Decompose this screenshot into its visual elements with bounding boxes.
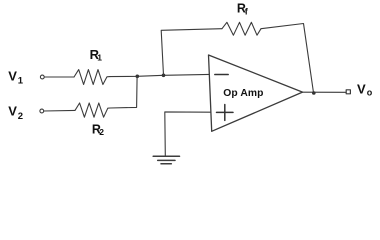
wire output xyxy=(303,91,347,93)
wire Rf to output node xyxy=(261,24,314,93)
wire node B up to Rf xyxy=(161,29,222,76)
op-amp U1 body xyxy=(209,55,303,131)
terminal Vo square xyxy=(346,90,350,94)
op-amp inverting input minus sign xyxy=(215,74,228,76)
wire R1 to op-amp inverting input xyxy=(110,74,209,76)
wire non-inverting input to ground xyxy=(165,112,211,156)
wire V1 to R1 xyxy=(44,76,74,78)
svg-text:Op Amp: Op Amp xyxy=(223,88,263,99)
svg-text:1: 1 xyxy=(97,52,102,62)
op-amp non-inverting input plus sign xyxy=(217,105,234,121)
svg-text:o: o xyxy=(367,88,373,98)
label Vo xyxy=(357,82,373,98)
svg-text:V: V xyxy=(8,104,17,119)
svg-text:V: V xyxy=(357,82,366,97)
node B feedback tap xyxy=(162,74,166,78)
svg-text:1: 1 xyxy=(18,76,24,87)
ground xyxy=(153,156,179,163)
label Rf xyxy=(237,1,249,16)
node A junction R1 R2 xyxy=(136,75,140,79)
node C output junction xyxy=(312,91,316,95)
svg-text:2: 2 xyxy=(99,127,104,137)
svg-text:2: 2 xyxy=(18,111,23,122)
resistor Rf xyxy=(222,22,261,35)
wire R2 to node A xyxy=(110,76,137,108)
terminal V2 xyxy=(40,109,44,113)
svg-text:V: V xyxy=(8,68,17,83)
label V1 xyxy=(8,68,23,86)
resistor R1 xyxy=(74,70,110,85)
label V2 xyxy=(8,104,23,122)
terminal V1 xyxy=(40,75,44,79)
wire V2 to R2 xyxy=(44,109,75,112)
svg-text:f: f xyxy=(245,7,249,17)
label R1 xyxy=(90,47,103,62)
label R2 xyxy=(92,123,104,138)
resistor R2 xyxy=(75,103,110,117)
